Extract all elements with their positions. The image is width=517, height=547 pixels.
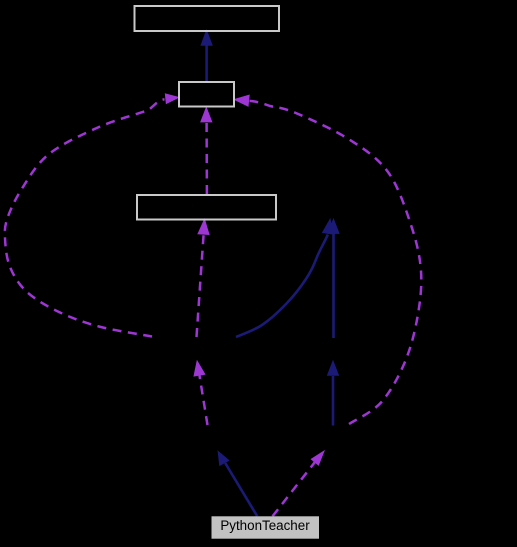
svg-text:PythonTeacher: PythonTeacher bbox=[220, 518, 310, 533]
node PythonTeacher (bottom, gray filled) bbox=[212, 516, 320, 538]
node box1 (top row, label hidden on black) bbox=[135, 6, 280, 31]
edge PythonTeacher to nodeD (dashed usage arrow) bbox=[273, 450, 326, 516]
edge nodeA to box2 (big left dashed loop arrow) bbox=[5, 93, 180, 336]
edge box2 to box1 (solid inheritance arrow) bbox=[200, 29, 212, 81]
edge nodeA to nodeB (solid blue curved arrow) bbox=[236, 218, 334, 337]
edge nodeD to nodeC (solid blue vertical arrow) bbox=[327, 360, 339, 426]
edge nodeA to box3 (dashed usage arrow) bbox=[197, 218, 210, 337]
edge box3 to box2 (dashed usage arrow) bbox=[200, 106, 212, 194]
edge nodeC to nodeB (solid blue vertical arrow) bbox=[327, 218, 339, 338]
edge nodeD to box2 (big right dashed loop arrow) bbox=[233, 95, 421, 425]
node box3 (third row) bbox=[137, 195, 276, 220]
edge PythonTeacher to nodeE (solid blue arrow) bbox=[218, 450, 258, 516]
edge nodeE to nodeA (dashed usage arrow) bbox=[193, 360, 207, 425]
node box2 (second row) bbox=[179, 82, 234, 107]
